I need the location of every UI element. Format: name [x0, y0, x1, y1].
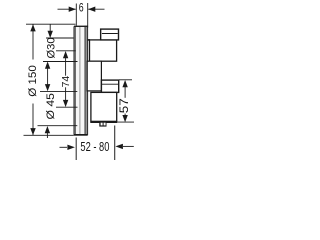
finished wall line left	[75, 138, 77, 161]
dimension Ø30 (handle body)	[43, 24, 78, 61]
svg-text:52 - 80: 52 - 80	[80, 139, 109, 154]
dimension Ø 150 (plate diameter, left)	[24, 24, 76, 135]
finished wall line right	[114, 126, 116, 161]
cartridge sleeve bar behind plate	[74, 26, 88, 136]
middle narrow housing	[87, 61, 101, 91]
shared stack arrow line between Ø30 and Ø 45	[45, 62, 50, 92]
dimension Ø 45 (lower handle)	[38, 91, 78, 138]
bottom housing stub	[90, 92, 117, 123]
bottom grip paddle	[101, 80, 118, 92]
handle body (top knob base)	[90, 40, 117, 61]
handle grip step (top knob)	[101, 29, 119, 40]
dimension 74 (axis distance)	[56, 51, 78, 107]
escutcheon plate (side view)	[73, 26, 84, 136]
dimension 57 (right side)	[118, 80, 135, 122]
svg-text:57: 57	[119, 98, 131, 113]
safety stop notch	[99, 122, 106, 127]
svg-text:Ø30: Ø30	[45, 38, 57, 59]
svg-text:Ø 45: Ø 45	[45, 93, 57, 120]
dimension 6 (plate thickness, top)	[58, 1, 105, 28]
svg-text:6: 6	[79, 1, 84, 15]
svg-text:Ø 150: Ø 150	[27, 65, 39, 97]
dimension 52 - 80 (installation depth, bottom)	[60, 139, 134, 154]
svg-text:74: 74	[60, 76, 72, 88]
